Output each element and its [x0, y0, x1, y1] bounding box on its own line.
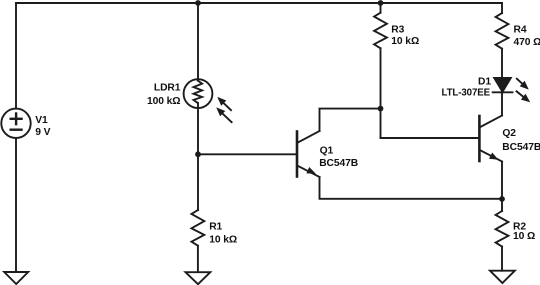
svg-text:100 kΩ: 100 kΩ: [147, 96, 180, 107]
LED D1 light arrows: [517, 79, 531, 103]
svg-text:BC547B: BC547B: [502, 142, 540, 153]
wire R4 to LED anode: [501, 49, 503, 78]
svg-text:LTL-307EE: LTL-307EE: [442, 87, 491, 98]
svg-text:470 Ω: 470 Ω: [514, 37, 540, 48]
resistor R4: [496, 13, 509, 49]
node dot base junction: [195, 151, 201, 157]
transistor Q2 BC547B: [479, 116, 502, 162]
wire Q1 emitter down to emitter rail: [320, 177, 503, 199]
node dot top R3 junction: [378, 0, 384, 6]
wire left branch bottom: [15, 138, 17, 272]
node dot top-left junction: [195, 0, 201, 6]
svg-text:BC547B: BC547B: [319, 158, 358, 169]
svg-text:V1: V1: [35, 115, 48, 126]
ground (R1): [186, 272, 211, 284]
resistor R2: [496, 211, 509, 247]
svg-text:R1: R1: [209, 222, 222, 233]
label V1 9 V: [35, 115, 50, 138]
wire R2 to ground: [501, 247, 503, 271]
node dot R3/collector/base junction: [378, 106, 384, 112]
svg-text:Q1: Q1: [320, 146, 334, 157]
wire R2 top: [501, 199, 503, 211]
svg-text:Q2: Q2: [502, 128, 516, 139]
svg-text:R3: R3: [391, 25, 404, 36]
ground (R2): [490, 271, 515, 283]
label Q1 BC547B: [319, 146, 358, 169]
label D1 LTL-307EE: [442, 76, 492, 98]
transistor Q1 BC547B: [297, 131, 320, 177]
wire R1 to ground: [197, 246, 199, 272]
resistor R3: [374, 13, 387, 49]
resistor R1: [192, 210, 205, 246]
wire to Q2 base: [381, 109, 480, 138]
ground (V1): [4, 272, 28, 284]
wire Q2 collector up to LED: [501, 92, 503, 115]
wire Q2 emitter down: [501, 162, 503, 200]
svg-text:9 V: 9 V: [35, 127, 50, 138]
photoresistor LDR1: [184, 79, 213, 108]
svg-text:D1: D1: [478, 76, 491, 87]
wire R3 top: [380, 3, 382, 13]
wire Q1 collector up: [320, 109, 381, 131]
label R1 10 kΩ: [209, 222, 237, 246]
wire left branch top (V+ to source): [15, 3, 17, 109]
wire top rail: [16, 2, 502, 4]
wire R4 top: [501, 3, 503, 13]
label R4 470 Ω: [514, 25, 540, 49]
label LDR1 100 kΩ: [147, 83, 181, 107]
svg-text:10 Ω: 10 Ω: [513, 231, 535, 242]
node dot emitter/R2 junction: [499, 196, 505, 202]
LED D1: [493, 78, 513, 92]
svg-text:10 kΩ: 10 kΩ: [209, 235, 237, 246]
wire LDR bottom to node: [197, 103, 199, 210]
label R3 10 kΩ: [391, 25, 419, 47]
svg-text:LDR1: LDR1: [154, 83, 181, 94]
wire Q1 base: [198, 153, 296, 155]
voltage source V1: [1, 109, 30, 138]
wire R3 bottom to collector node: [380, 48, 382, 108]
wire LDR top: [197, 3, 199, 79]
label Q2 BC547B: [502, 128, 540, 153]
label R2 10 Ω: [513, 221, 535, 242]
LDR1 light arrows: [216, 97, 231, 122]
svg-text:10 kΩ: 10 kΩ: [391, 36, 419, 47]
svg-text:R4: R4: [514, 25, 527, 36]
